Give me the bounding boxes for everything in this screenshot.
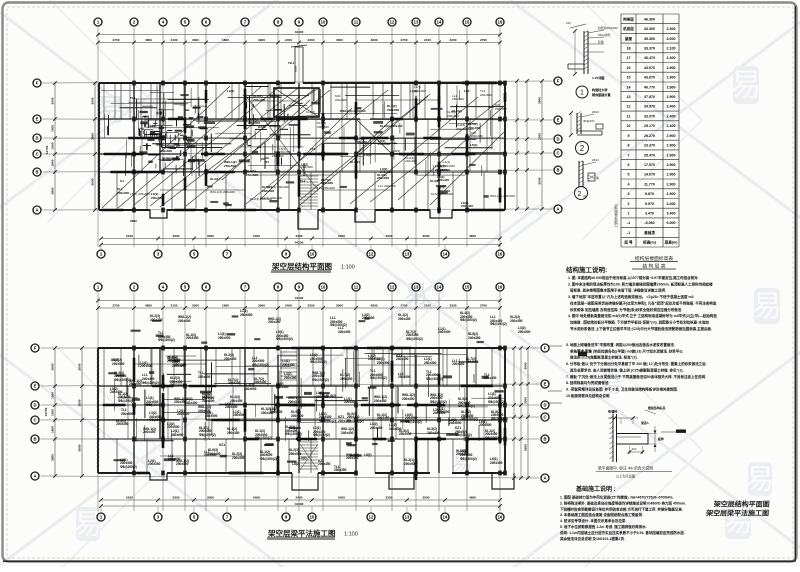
svg-text:2.900: 2.900 (667, 95, 676, 99)
svg-text:1:25详图: 1:25详图 (592, 75, 604, 80)
svg-text:200x350: 200x350 (437, 410, 450, 414)
svg-text:C: C (543, 415, 546, 420)
svg-text:2700: 2700 (113, 303, 120, 307)
svg-text:1800: 1800 (222, 303, 229, 307)
svg-text:200x350: 200x350 (116, 422, 129, 426)
svg-text:-5.060: -5.060 (644, 221, 654, 225)
svg-text:L3(2): L3(2) (299, 456, 307, 460)
svg-text:23.370: 23.370 (644, 144, 655, 148)
svg-text:200x400: 200x400 (276, 385, 289, 389)
svg-text:200x350: 200x350 (284, 376, 297, 380)
svg-text:D: D (35, 136, 38, 141)
top plan: right vertical dim chain (541, 81, 543, 209)
svg-text:240x400: 240x400 (405, 159, 417, 163)
svg-text:200x350: 200x350 (355, 140, 367, 144)
svg-text:200x350: 200x350 (468, 126, 480, 130)
svg-text:2100: 2100 (171, 303, 178, 307)
svg-text:35.300: 35.300 (644, 37, 655, 41)
svg-text:12: 12 (369, 515, 374, 520)
svg-text:C: C (35, 152, 38, 157)
svg-text:3300: 3300 (308, 303, 315, 307)
svg-text:LL1 200x400: LL1 200x400 (317, 186, 335, 190)
svg-text:240x400: 240x400 (172, 364, 185, 368)
detail sketch 3 (579, 161, 583, 187)
svg-text:Φ6@200: Φ6@200 (583, 119, 595, 123)
svg-text:240x400: 240x400 (396, 357, 409, 361)
svg-text:10.板面荷载详见结构总说明.: 10.板面荷载详见结构总说明. (566, 393, 610, 398)
svg-text:其余做法详见总说明 及16G101-1图集1页.: 其余做法详见总说明 及16G101-1图集1页. (559, 536, 625, 541)
svg-text:46.470: 46.470 (644, 56, 655, 60)
svg-text:3000: 3000 (336, 38, 343, 42)
svg-text:F: F (544, 346, 547, 351)
svg-text:3300: 3300 (450, 38, 457, 42)
svg-text:B: B (543, 437, 546, 442)
svg-text:14: 14 (627, 85, 631, 89)
svg-text:Φ8@200(2): Φ8@200(2) (276, 337, 293, 341)
svg-text:2700: 2700 (480, 38, 487, 42)
svg-text:44100: 44100 (295, 296, 304, 300)
svg-text:13: 13 (414, 285, 419, 290)
svg-text:8. 结构标高均为完成面做法.: 8. 结构标高均为完成面做法. (566, 380, 609, 385)
svg-text:A: A (543, 476, 546, 481)
svg-text:1800: 1800 (50, 426, 54, 433)
svg-text:200x450: 200x450 (268, 320, 281, 324)
svg-text:2700: 2700 (401, 38, 408, 42)
top plan: bottom protrusions (150, 210, 167, 218)
svg-text:240: 240 (566, 21, 571, 25)
bottom plan: exterior walls (98, 347, 505, 349)
svg-text:240x600: 240x600 (449, 421, 462, 425)
svg-text:Φ8@200(2): Φ8@200(2) (405, 420, 422, 424)
svg-text:C: C (556, 151, 559, 156)
top plan: interior vertical walls (133, 83, 135, 210)
detail: top dim line (608, 417, 638, 419)
svg-text:200x450: 200x450 (186, 336, 199, 340)
svg-text:架空层梁平法施工图: 架空层梁平法施工图 (705, 509, 770, 518)
svg-text:2.900: 2.900 (667, 182, 676, 186)
svg-text:6.000: 6.000 (667, 221, 676, 225)
svg-text:砼墙: 砼墙 (598, 40, 604, 44)
svg-text:5600: 5600 (90, 178, 94, 185)
top plan: dense interior linework (162, 147, 223, 149)
svg-text:200x350: 200x350 (387, 108, 399, 112)
svg-text:5100: 5100 (126, 495, 133, 499)
svg-text:-1: -1 (627, 221, 630, 225)
svg-text:3500: 3500 (90, 133, 94, 140)
svg-text:架空层梁平法施工图: 架空层梁平法施工图 (267, 528, 336, 538)
bottom plan: bottom dimension chain (101, 499, 500, 501)
svg-text:200x350: 200x350 (232, 456, 245, 460)
svg-text:8.870: 8.870 (645, 192, 654, 196)
svg-text:37.870: 37.870 (644, 95, 655, 99)
svg-text:2700: 2700 (401, 303, 408, 307)
svg-text:200x400: 200x400 (253, 98, 265, 102)
svg-text:1. 图. 本图结构±0.000相当于绝对标高,以1977相: 1. 图. 本图结构±0.000相当于绝对标高,以1977相对高~6.97平面定… (568, 275, 699, 280)
svg-text:梁平面图中, 标注 Φb 的含义说明: 梁平面图中, 标注 Φb 的含义说明 (598, 466, 653, 471)
svg-text:说明: 1.1m内回填土应分层夯实且压实系数不小于0.94.: 说明: 1.1m内回填土应分层夯实且压实系数不小于0.94. 基坑回填前应完成防… (560, 530, 685, 535)
bottom plan: left vertical dim chains (54, 348, 56, 476)
svg-text:3300: 3300 (523, 397, 527, 404)
svg-text:5400: 5400 (253, 495, 260, 499)
svg-text:13: 13 (405, 515, 410, 520)
svg-text:4800: 4800 (145, 38, 152, 42)
bottom plan: dense interior linework (458, 361, 478, 363)
svg-text:200x350: 200x350 (362, 316, 375, 320)
svg-text:3.400: 3.400 (667, 212, 676, 216)
bottom plan: stair treads (300, 441, 318, 443)
svg-text:200x350: 200x350 (334, 468, 347, 472)
svg-text:3600: 3600 (50, 97, 54, 104)
svg-text:200x350: 200x350 (279, 150, 291, 154)
svg-text:240x600: 240x600 (321, 181, 333, 185)
svg-text:B: B (35, 170, 38, 175)
svg-text:16: 16 (498, 515, 503, 520)
svg-text:11: 11 (627, 114, 631, 118)
top plan: exterior walls (99, 82, 505, 84)
svg-text:1900: 1900 (50, 125, 54, 132)
svg-text:3000: 3000 (207, 495, 214, 499)
detail: right dim with arrows (654, 426, 656, 452)
svg-text:1600: 1600 (50, 142, 54, 149)
svg-text:18: 18 (627, 47, 631, 51)
svg-text:C1: C1 (120, 179, 124, 183)
bottom plan: right vertical dim chain (527, 348, 529, 478)
svg-text:L8(2): L8(2) (364, 453, 372, 457)
top plan: shaded slab opening with cross (274, 88, 319, 117)
svg-text:240x400: 240x400 (341, 431, 354, 435)
svg-text:1900: 1900 (50, 392, 54, 399)
svg-text:易: 易 (74, 509, 102, 540)
svg-text:Φ8@200(2): Φ8@200(2) (118, 399, 135, 403)
svg-text:2.900: 2.900 (667, 173, 676, 177)
bottom plan: vertical grid lines (97, 293, 99, 512)
top plan: stair core cluster (158, 109, 174, 111)
svg-text:250x500: 250x500 (289, 452, 302, 456)
svg-text:4. 桩详见专项设计. 本图仅示意承台及拉梁.: 4. 桩详见专项设计. 本图仅示意承台及拉梁. (560, 518, 626, 523)
bottom plan: top dimension chain (98, 307, 500, 309)
svg-text:2.900: 2.900 (667, 85, 676, 89)
svg-text:层标高. 其余按照图集本图用于余留下层. 详细做法详施工说明: 层标高. 其余按照图集本图用于余留下层. 详细做法详施工说明. (569, 288, 666, 293)
top plan: horizontal grid lines (43, 81, 553, 83)
svg-text:2400: 2400 (285, 303, 292, 307)
svg-text:16: 16 (627, 66, 631, 70)
svg-text:240x400: 240x400 (185, 401, 198, 405)
svg-text:Φ8@200(2): Φ8@200(2) (490, 322, 507, 326)
svg-text:200x400: 200x400 (471, 134, 483, 138)
svg-text:2700: 2700 (480, 303, 487, 307)
svg-text:34.970: 34.970 (644, 105, 655, 109)
svg-text:B1: B1 (265, 160, 269, 164)
svg-text:33.370: 33.370 (644, 47, 655, 51)
svg-text:240x400: 240x400 (438, 330, 451, 334)
top plan: right row circles (554, 77, 562, 85)
top plan: interior partitions vertical (116, 172, 118, 210)
svg-text:200x450: 200x450 (318, 462, 331, 466)
svg-text:12700: 12700 (45, 145, 49, 154)
svg-text:250x500: 250x500 (205, 414, 218, 418)
svg-text:40.770: 40.770 (644, 85, 655, 89)
bottom plan: interior vertical walls (133, 348, 135, 473)
svg-text:Φ8@200(2): Φ8@200(2) (158, 338, 175, 342)
svg-text:楼面结构标高: 楼面结构标高 (648, 405, 665, 410)
svg-text:结构施工说明:: 结构施工说明: (566, 265, 607, 274)
svg-text:2. 除特殊注明外. 基础及承台砼强度等级均详结施总说明 f: 2. 除特殊注明外. 基础及承台砼强度等级均详结施总说明 fc480/fb 持力… (560, 500, 686, 505)
svg-text:12700: 12700 (44, 407, 48, 416)
bottom plan: right dim chains (513, 348, 515, 478)
svg-text:3.300: 3.300 (667, 27, 676, 31)
svg-text:3: 3 (628, 192, 630, 196)
top plan: heavy core cluster (180, 150, 182, 156)
svg-text:2.900: 2.900 (667, 153, 676, 157)
svg-text:5: 5 (628, 173, 630, 177)
top plan: dark text blobs (195, 159, 204, 161)
svg-text:上部结构嵌固部位: 上部结构嵌固部位 (613, 204, 618, 228)
svg-text:2Φ12通长: 2Φ12通长 (598, 33, 611, 37)
top plan: column blobs (132, 81, 136, 86)
svg-text:250x500: 250x500 (377, 176, 389, 180)
svg-text:11.770: 11.770 (644, 182, 655, 186)
svg-text:250x500: 250x500 (176, 462, 189, 466)
svg-text:200x400: 200x400 (414, 89, 426, 93)
svg-text:B: B (556, 168, 559, 173)
svg-text:3300: 3300 (173, 234, 180, 238)
svg-text:250x500: 250x500 (240, 313, 253, 317)
svg-text:8: 8 (628, 144, 630, 148)
svg-text:3900: 3900 (523, 362, 527, 369)
svg-text:Φ8@200(2): Φ8@200(2) (460, 318, 477, 322)
svg-text:基础顶: 基础顶 (643, 230, 655, 235)
svg-text:Φ8@200(2): Φ8@200(2) (312, 378, 329, 382)
svg-text:200x500: 200x500 (479, 423, 492, 427)
svg-text:200x400: 200x400 (437, 178, 449, 182)
svg-text:2400: 2400 (296, 495, 303, 499)
svg-text:D: D (543, 403, 546, 408)
sheet title text bottom right (705, 500, 770, 518)
svg-text:240x600: 240x600 (244, 387, 257, 391)
svg-text:3300: 3300 (450, 303, 457, 307)
svg-text:200x450: 200x450 (270, 410, 283, 414)
bottom plan: horizontal grid lines (41, 347, 540, 349)
svg-text:2100: 2100 (171, 38, 178, 42)
svg-text:43.670: 43.670 (644, 76, 655, 80)
svg-text:12: 12 (390, 20, 395, 25)
svg-text:在本混凝—级配采用页岩砖做好腻子[过梁大样和]. 凡在“梁顶: 在本混凝—级配采用页岩砖做好腻子[过梁大样和]. 凡在“梁顶”起处及如不同做基.… (570, 300, 717, 305)
svg-text:D: D (33, 403, 36, 408)
svg-text:4800: 4800 (469, 495, 476, 499)
svg-text:240x400: 240x400 (110, 390, 123, 394)
svg-text:5100: 5100 (126, 234, 133, 238)
bottom plan: right row circles (541, 344, 549, 352)
bottom plan: bottom protrusions (150, 473, 167, 480)
top plan: left wall hatch ticks (98, 84, 101, 86)
svg-text:200x350: 200x350 (150, 318, 163, 322)
svg-text:架空层结构平面图: 架空层结构平面图 (712, 500, 770, 509)
svg-text:KL2(3) 200x400: KL2(3) 200x400 (250, 197, 272, 201)
svg-text:2.900: 2.900 (667, 76, 676, 80)
svg-text:3800: 3800 (50, 187, 54, 194)
svg-text:3600: 3600 (130, 219, 137, 223)
svg-text:44100: 44100 (295, 502, 304, 506)
svg-text:250x500: 250x500 (466, 360, 479, 364)
svg-text:6: 6 (628, 163, 630, 167)
svg-text:易: 易 (746, 464, 774, 495)
svg-text:2100: 2100 (424, 38, 431, 42)
svg-text:2100: 2100 (424, 303, 431, 307)
svg-text:A: A (33, 474, 36, 479)
top plan: left row circles (33, 79, 41, 87)
svg-text:7: 7 (628, 153, 630, 157)
svg-text:7. 楼板·下沉处·做法上反梁做法小于 不同高差做法如50者: 7. 楼板·下沉处·做法上反梁做法小于 不同高差做法如50者详相关大样. 不另标… (566, 374, 706, 379)
svg-text:200x350: 200x350 (227, 431, 240, 435)
svg-text:10: 10 (321, 20, 326, 25)
top plan: extra diagonals (134, 86, 280, 205)
svg-text:9: 9 (628, 134, 630, 138)
svg-text:15: 15 (627, 76, 631, 80)
svg-text:F: F (34, 346, 37, 351)
svg-text:5. 地下水位按勘察报告 1.2m 考虑. 施工期间做好降排: 5. 地下水位按勘察报告 1.2m 考虑. 施工期间做好降排水. (560, 524, 647, 529)
svg-text:3.470: 3.470 (645, 212, 654, 216)
svg-text:200x350: 200x350 (490, 461, 503, 465)
svg-text:200x400: 200x400 (306, 114, 318, 118)
svg-text:4800: 4800 (469, 234, 476, 238)
svg-text:240x400: 240x400 (225, 405, 238, 409)
svg-text:屋面: 屋面 (625, 36, 633, 41)
svg-text:Φ8@200(2): Φ8@200(2) (120, 465, 137, 469)
svg-text:3800: 3800 (50, 454, 54, 461)
svg-text:标高(m): 标高(m) (642, 240, 657, 245)
svg-text:250x500: 250x500 (129, 382, 142, 386)
svg-text:其及总要求也. 由人间做管实做. 做上则 (C25)做膨胀混: 其及总要求也. 由人间做管实做. 做上则 (C25)做膨胀混凝土材做. 参见”(… (569, 367, 684, 372)
svg-text:WKL1(2) 200x400: WKL1(2) 200x400 (210, 190, 235, 194)
svg-text:2Φ10: 2Φ10 (592, 110, 599, 114)
svg-text:12: 12 (369, 252, 374, 257)
svg-text:2.900: 2.900 (667, 192, 676, 196)
svg-text:12: 12 (627, 105, 631, 109)
svg-text:B: B (33, 437, 36, 442)
svg-text:200x350: 200x350 (338, 419, 351, 423)
svg-text:250x500: 250x500 (272, 154, 284, 158)
svg-text:200x450: 200x450 (377, 416, 390, 420)
top plan: left vertical dim chains (54, 83, 56, 210)
svg-text:TB-1: TB-1 (288, 61, 295, 65)
svg-text:1: 1 (580, 90, 584, 97)
svg-text:2.100: 2.100 (667, 47, 676, 51)
svg-text:C: C (33, 418, 36, 423)
svg-text:44100: 44100 (295, 241, 304, 245)
svg-text:2.900: 2.900 (667, 144, 676, 148)
svg-text:200x350: 200x350 (510, 319, 523, 323)
svg-text:F: F (36, 81, 39, 86)
svg-text:3300: 3300 (192, 38, 199, 42)
svg-text:L2(1): L2(1) (227, 89, 234, 93)
svg-text:2400: 2400 (296, 234, 303, 238)
svg-text:L3(2): L3(2) (364, 153, 371, 157)
svg-text:14: 14 (437, 285, 442, 290)
svg-text:240x600: 240x600 (380, 170, 392, 174)
top plan: interior horizontal walls (99, 118, 505, 120)
svg-text:层 号: 层 号 (624, 240, 633, 245)
svg-text:13: 13 (414, 20, 419, 25)
top plan: bottom circles row (97, 250, 105, 258)
svg-text:200x400: 200x400 (484, 376, 497, 380)
svg-text:200x450: 200x450 (374, 399, 387, 403)
svg-text:17: 17 (627, 56, 631, 60)
svg-text:16: 16 (498, 285, 503, 290)
svg-text:3300: 3300 (537, 133, 541, 140)
svg-text:2. 图中未注明的现浇板厚均为100. 剪力墙及楼梯间隔墙厚: 2. 图中未注明的现浇板厚均为100. 剪力墙及楼梯间隔墙厚200mm. 板顶标… (568, 281, 713, 286)
svg-text:240x600: 240x600 (171, 433, 184, 437)
svg-text:E: E (544, 382, 547, 387)
svg-text:D: D (556, 137, 559, 142)
svg-text:1:100: 1:100 (344, 532, 358, 538)
slab-wall junction detail drawing (613, 414, 617, 462)
svg-text:4. 图中 地处楼板高差做法如 m3(9)平式.立于 之结构: 4. 图中 地处楼板高差做法如 m3(9)平式.立于 之结构标准混凝标号为 m3… (568, 313, 717, 318)
svg-text:2.400: 2.400 (667, 56, 676, 60)
svg-text:易: 易 (752, 290, 782, 323)
svg-text:Φ8@200(2): Φ8@200(2) (199, 433, 216, 437)
svg-text:LL1 200x400: LL1 200x400 (378, 184, 396, 188)
svg-text:33.070: 33.070 (644, 114, 655, 118)
svg-text:200x500: 200x500 (112, 362, 125, 366)
svg-text:砌体留槎示意: 砌体留槎示意 (591, 92, 611, 97)
svg-text:L5(1): L5(1) (470, 143, 477, 147)
svg-text:A: A (556, 207, 559, 212)
svg-text:5.970: 5.970 (645, 202, 654, 206)
svg-text:WKL2(3) 240x500: WKL2(3) 240x500 (340, 109, 366, 113)
svg-text:240x600: 240x600 (393, 152, 405, 156)
detail callout circle 2a (575, 187, 588, 200)
svg-text:10: 10 (310, 515, 315, 520)
svg-text:44100: 44100 (295, 30, 304, 34)
svg-text:板厚: 板厚 (658, 436, 664, 441)
svg-text:4800: 4800 (145, 303, 152, 307)
bottom plan: interior partitions vertical (116, 439, 118, 473)
svg-text:下验槽时应会同勘察设计单位共同验收合格 方可进行下道工序.: 下验槽时应会同勘察设计单位共同验收合格 方可进行下道工序. 并做好隐蔽记录. (560, 506, 683, 511)
svg-text:14.670: 14.670 (644, 173, 655, 177)
svg-text:5400: 5400 (338, 234, 345, 238)
svg-text:LL3: LL3 (464, 89, 470, 93)
svg-text:16: 16 (498, 252, 503, 257)
top plan: diagonal slope lines (102, 86, 230, 208)
svg-text:240x600: 240x600 (335, 98, 347, 102)
svg-text:2.900: 2.900 (667, 163, 676, 167)
svg-text:43.070: 43.070 (644, 66, 655, 70)
svg-text:节水泥砂浆做法 上下做节立边做平平法 (C25)中分大节锚: 节水泥砂浆做法 上下做节立边做平平法 (C25)中分大节锚栓做法按配筋做加固标高… (570, 326, 712, 331)
svg-text:200x500: 200x500 (301, 165, 313, 169)
svg-text:3000: 3000 (336, 303, 343, 307)
svg-text:1. 图图 基础持力层为中风化泥岩(25°内摩角). fak: 1. 图图 基础持力层为中风化泥岩(25°内摩角). fak=4670(725)… (560, 495, 673, 500)
svg-text:以上为示意图: 以上为示意图 (616, 474, 635, 479)
svg-text:水箱: 水箱 (155, 110, 162, 115)
svg-text:240x600: 240x600 (202, 399, 215, 403)
svg-text:240x600: 240x600 (198, 409, 211, 413)
svg-text:3300: 3300 (308, 38, 315, 42)
svg-text:构架层: 构架层 (623, 16, 634, 21)
svg-text:46.300: 46.300 (644, 17, 655, 21)
svg-text:3600: 3600 (77, 363, 81, 370)
svg-text:200x500: 200x500 (140, 364, 153, 368)
svg-text:250x500: 250x500 (518, 330, 531, 334)
svg-text:-1: -1 (627, 231, 630, 235)
svg-text:L3(2): L3(2) (111, 358, 119, 362)
svg-text:200x450: 200x450 (443, 164, 455, 168)
top plan: second cross room (357, 120, 391, 153)
svg-text:3600: 3600 (90, 97, 94, 104)
svg-text:25.470: 25.470 (644, 153, 655, 157)
svg-text:10: 10 (627, 124, 631, 128)
svg-text:现浇板h=100: 现浇板h=100 (162, 156, 180, 161)
svg-text:易: 易 (730, 68, 761, 103)
